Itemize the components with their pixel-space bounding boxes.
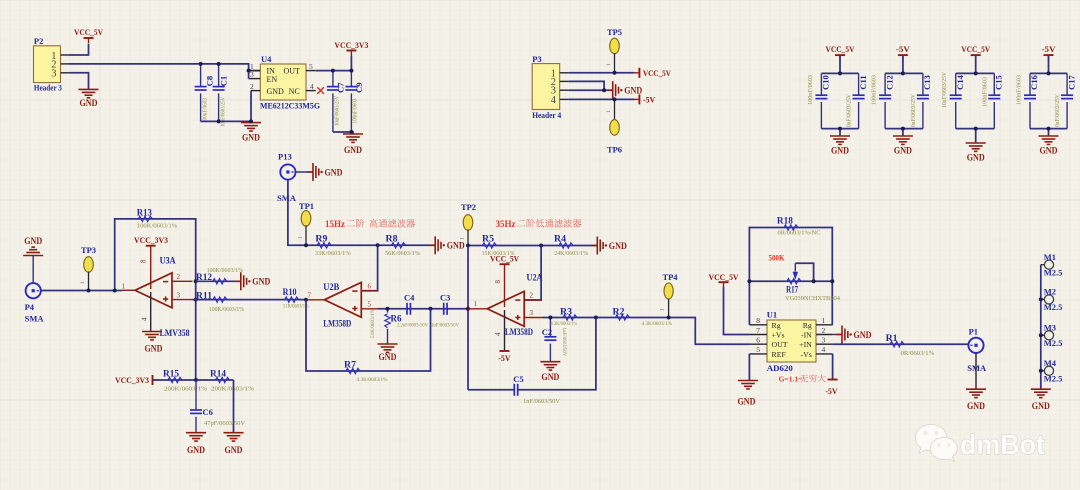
svg-text:4: 4: [551, 95, 557, 106]
svg-text:3: 3: [177, 291, 181, 299]
svg-text:M2.5: M2.5: [1044, 302, 1063, 312]
wire P2 pin3 to GND: [69, 73, 89, 89]
ground (R14): [224, 432, 244, 434]
svg-text:LMV358: LMV358: [160, 328, 190, 338]
svg-text:LM358D: LM358D: [323, 318, 351, 328]
svg-text:1: 1: [460, 237, 466, 240]
node: R9/R8 junction: [376, 243, 380, 247]
svg-text:7: 7: [756, 326, 760, 335]
op-amp U3A: [135, 273, 172, 308]
node: C4/C3 junction (R7 tap): [429, 307, 433, 311]
svg-text:R18: R18: [777, 215, 794, 225]
node: divider at pin3: [194, 298, 198, 302]
ground (U3A pin4): [142, 331, 162, 333]
svg-text:R9: R9: [315, 233, 328, 243]
ground (C7/C9): [343, 133, 363, 135]
svg-text:1uF/0603/50V: 1uF/0603/50V: [561, 328, 567, 357]
wire cap bank bottom rail: [956, 128, 995, 130]
svg-text:200K/0603/1%: 200K/0603/1%: [164, 386, 208, 393]
capacitor C7: [332, 71, 334, 87]
svg-text:VCC_3V3: VCC_3V3: [115, 376, 149, 385]
resistor R10: [287, 299, 306, 301]
wire P13 signal down to filter input: [288, 180, 435, 246]
wire P3 pin4 to -5V: [569, 98, 634, 100]
wire U1 pin5 (REF) to GND: [748, 354, 750, 381]
svg-text:Rg: Rg: [803, 321, 812, 330]
node: R13 right at pin2: [194, 279, 198, 283]
svg-text:10uF/0603/25V: 10uF/0603/25V: [1054, 94, 1061, 130]
svg-text:R7: R7: [344, 360, 357, 370]
svg-text:0R/0603/1%/NC: 0R/0603/1%/NC: [778, 230, 821, 237]
svg-text:VCC_5V: VCC_5V: [826, 45, 855, 54]
U2A pin8: [504, 264, 506, 307]
U2B pin6 stub: [361, 290, 377, 292]
resistor R11: [193, 299, 287, 301]
svg-text:EN: EN: [267, 75, 278, 84]
svg-text:33K/0603/1%: 33K/0603/1%: [315, 250, 351, 257]
svg-text:6: 6: [368, 283, 372, 291]
wire cap bank bottom rail: [821, 128, 858, 130]
svg-text:500K: 500K: [769, 253, 785, 262]
node: bank top: [1047, 71, 1051, 75]
svg-text:R8: R8: [386, 233, 399, 243]
wire P3 pin3 to GND: [569, 89, 613, 91]
svg-text:VCC_5V: VCC_5V: [709, 273, 739, 282]
svg-text:47pF/0603/50V: 47pF/0603/50V: [204, 421, 246, 427]
connector P4 SMA: [26, 283, 41, 298]
svg-text:51K/0603/1%: 51K/0603/1%: [370, 309, 376, 338]
ground (cap bank C10/C11): [830, 135, 850, 137]
svg-text:+IN: +IN: [799, 340, 812, 349]
svg-text:2: 2: [250, 82, 254, 91]
svg-text:M3: M3: [1044, 323, 1056, 333]
svg-text:GND: GND: [738, 397, 756, 407]
svg-text:-Vs: -Vs: [801, 350, 812, 359]
svg-text:6: 6: [756, 336, 760, 345]
svg-text:GND: GND: [1040, 146, 1058, 156]
svg-text:7: 7: [308, 292, 312, 300]
svg-text:C14: C14: [955, 74, 965, 89]
svg-text:GND: GND: [1032, 401, 1050, 411]
svg-text:TP1: TP1: [299, 201, 314, 211]
wire mounting hole rail: [1040, 265, 1042, 389]
node: P2.2/C8 junction: [199, 62, 203, 66]
svg-text:GND: GND: [24, 236, 42, 246]
svg-text:-5V: -5V: [825, 387, 838, 396]
U3A pin1 stub: [122, 289, 135, 291]
svg-text:LM358D: LM358D: [505, 327, 533, 337]
svg-text:C5: C5: [513, 374, 523, 384]
ground (P4 shield): [23, 255, 43, 257]
power port VCC_5V (cap bank): [971, 54, 981, 56]
wire U1 pin4 to -5V: [832, 354, 834, 380]
resistor R7 (feedback): [306, 300, 431, 371]
node: bank top: [838, 71, 842, 75]
svg-text:4: 4: [140, 317, 148, 321]
svg-text:-5V: -5V: [896, 45, 910, 54]
svg-text:4.3K/0603/1%: 4.3K/0603/1%: [550, 321, 577, 327]
node: C2 tap: [548, 316, 552, 320]
svg-text:100nF/0603: 100nF/0603: [807, 75, 814, 105]
wire U4 GND pin down: [250, 91, 252, 122]
svg-text:-5V: -5V: [643, 95, 656, 104]
potentiometer R17 rail: [749, 280, 832, 282]
resistor R3: [563, 315, 577, 320]
svg-text:GND: GND: [344, 145, 362, 155]
op-amp U2B: [324, 282, 361, 317]
wire cap bank top rail: [1048, 56, 1050, 74]
power port -5V (P3): [638, 94, 640, 104]
ground (C6): [186, 432, 206, 434]
svg-text:+Vs: +Vs: [772, 331, 785, 340]
svg-text:100nF/0603: 100nF/0603: [352, 99, 358, 124]
capacitor C13: [922, 73, 924, 95]
svg-text:4: 4: [310, 82, 314, 91]
TP2 pin: [467, 230, 469, 246]
wire R14 to GND: [233, 380, 235, 433]
svg-text:2: 2: [530, 291, 534, 299]
U2A pin1 stub: [468, 308, 487, 310]
node: C1 top junction: [217, 62, 221, 66]
svg-text:C7: C7: [336, 82, 346, 93]
svg-text:AD620: AD620: [767, 363, 793, 373]
amplifier U1 AD620: [767, 320, 816, 362]
svg-text:REF: REF: [772, 350, 787, 359]
svg-text:1: 1: [606, 63, 612, 66]
power port VCC_5V (U1 +Vs): [719, 281, 729, 283]
svg-text:R10: R10: [283, 287, 297, 297]
power port VCC_3V3 (divider R15): [152, 375, 154, 385]
svg-text:GND: GND: [325, 167, 343, 177]
capacitor C14: [955, 73, 957, 95]
ground (P2 pin3): [79, 88, 99, 90]
svg-text:C8: C8: [205, 76, 215, 86]
resistor R14: [196, 379, 234, 381]
svg-text:M2.5: M2.5: [1044, 267, 1063, 277]
wire P2 pin1 to VCC_5V: [69, 44, 89, 55]
mounting hole M4: [1041, 370, 1045, 372]
svg-text:ME6212C33M5G: ME6212C33M5G: [260, 100, 320, 110]
U2A pin4: [504, 310, 506, 351]
svg-text:3: 3: [822, 336, 826, 345]
svg-text:1: 1: [298, 236, 304, 239]
U2B pin5 stub: [361, 308, 377, 310]
svg-text:R4: R4: [554, 233, 567, 243]
svg-text:R13: R13: [137, 207, 152, 217]
capacitor C1: [218, 64, 220, 87]
U3A pin8: [150, 246, 152, 289]
svg-text:M2: M2: [1044, 287, 1056, 297]
resistor R5: [483, 243, 497, 248]
U2A pin3 stub: [524, 317, 543, 319]
test point TP3: [84, 257, 94, 273]
mounting hole M3: [1041, 334, 1045, 336]
svg-text:GND: GND: [252, 277, 270, 287]
wire input node down to U2A pin1 and on to C5 rail: [467, 246, 469, 390]
svg-text:10uF/0603/25V: 10uF/0603/25V: [941, 72, 948, 108]
svg-text:SMA: SMA: [967, 363, 987, 373]
test point TP2: [463, 215, 473, 231]
wire R5/R4 junction down to U2A pin2: [524, 246, 541, 301]
TP1 pin: [305, 225, 307, 245]
svg-text:M2.5: M2.5: [1044, 338, 1063, 348]
resistor R15: [153, 379, 197, 381]
wire cap bank top rail: [902, 56, 904, 74]
svg-text:TP2: TP2: [461, 202, 476, 212]
svg-text:VCC_5V: VCC_5V: [643, 69, 671, 78]
svg-text:SMA: SMA: [25, 314, 45, 324]
svg-text:GND: GND: [145, 344, 163, 354]
power port VCC_3V3 (U4 out): [346, 50, 356, 52]
svg-text:4: 4: [822, 345, 826, 354]
svg-text:100nF/0603: 100nF/0603: [871, 75, 878, 105]
svg-text:GND: GND: [447, 241, 465, 251]
svg-text:C15: C15: [994, 75, 1004, 90]
svg-text:1nF/0603/50V: 1nF/0603/50V: [523, 399, 561, 405]
svg-text:100nF/0603: 100nF/0603: [981, 77, 988, 107]
svg-text:R5: R5: [482, 233, 495, 243]
node: bank bottom: [901, 127, 905, 131]
svg-text:56K/0603/1%: 56K/0603/1%: [385, 250, 421, 257]
connector P1 SMA: [968, 338, 983, 353]
wire TP2 node / R5 R4 rail: [468, 245, 597, 247]
svg-text:P1: P1: [969, 326, 978, 336]
no-connect X on U4 pin4: [317, 87, 324, 94]
svg-text:C1: C1: [219, 76, 229, 86]
power port VCC_3V3 (U3A pin8): [146, 245, 156, 247]
P3 pin stubs: [560, 72, 569, 74]
U1 pin stubs: [749, 324, 767, 326]
svg-text:GND: GND: [967, 401, 985, 411]
svg-text:10uF/0603/25V: 10uF/0603/25V: [334, 95, 340, 126]
svg-text:VCC_3V3: VCC_3V3: [334, 41, 368, 50]
node: TP6 tap: [613, 97, 617, 101]
svg-text:C17: C17: [1066, 74, 1076, 89]
svg-text:0R/0603/1%: 0R/0603/1%: [901, 351, 935, 357]
power port VCC_5V (P2): [84, 37, 94, 39]
node: R6 tap: [386, 307, 390, 311]
svg-text:SMA: SMA: [277, 193, 297, 203]
svg-text:8: 8: [494, 280, 502, 284]
svg-text:M2.5: M2.5: [1044, 373, 1063, 383]
power port VCC_5V (cap bank): [835, 54, 845, 56]
wire P3 pin2 jog to pin3 net: [569, 81, 604, 90]
svg-text:GND: GND: [225, 445, 243, 455]
svg-text:M1: M1: [1044, 252, 1056, 262]
ground (U4/C8/C1): [241, 122, 261, 124]
connector P3 Header 4: [532, 64, 560, 110]
svg-text:C2: C2: [542, 327, 552, 337]
node: C5 feedback tap: [594, 316, 598, 320]
svg-text:C4: C4: [404, 292, 415, 302]
svg-text:100nF/0603: 100nF/0603: [203, 98, 209, 123]
power port -5V (U1): [828, 379, 838, 381]
svg-text:R1: R1: [886, 333, 899, 343]
resistor R18 (gain, NC): [749, 228, 832, 325]
wire U4 OUT to VCC_3V3: [316, 56, 352, 71]
svg-text:1: 1: [660, 308, 666, 311]
resistor R6 (to gnd): [387, 309, 389, 313]
svg-text:GND: GND: [541, 372, 559, 382]
svg-text:100K/0603/1%: 100K/0603/1%: [209, 306, 245, 313]
node: M3 tap: [1039, 333, 1043, 337]
svg-text:R15: R15: [163, 369, 180, 379]
svg-text:VCC_5V: VCC_5V: [490, 255, 519, 264]
svg-text:GND: GND: [967, 153, 985, 163]
U4 pin stubs + numbers: [249, 70, 261, 72]
resistor R9: [317, 243, 331, 248]
power port -5V (cap bank): [1044, 54, 1054, 56]
svg-text:8: 8: [140, 259, 148, 263]
node: R13 left / output: [113, 289, 117, 293]
node: TP3 tap: [87, 289, 91, 293]
svg-text:U2B: U2B: [323, 282, 339, 292]
ground (cap bank C16/C17): [1039, 135, 1059, 137]
svg-text:5: 5: [756, 345, 760, 354]
node: rail right: [830, 279, 834, 283]
svg-text:GND: GND: [187, 445, 205, 455]
node: TP5 tap: [613, 71, 617, 75]
svg-text:1: 1: [80, 281, 86, 284]
resistor R12: [196, 280, 241, 282]
svg-text:1: 1: [122, 282, 126, 290]
wire P3 pin1 to VCC_5V: [569, 72, 634, 74]
svg-text:TP6: TP6: [607, 145, 622, 155]
node: TP2/input: [466, 244, 470, 248]
svg-text:G=1.1~: G=1.1~: [779, 375, 802, 384]
node: divider mid: [194, 378, 198, 382]
resistor R8: [392, 243, 406, 248]
ground (cap bank C14/C15): [966, 142, 986, 144]
svg-text:4.3K/0603/1%: 4.3K/0603/1%: [357, 377, 388, 383]
svg-text:TP3: TP3: [81, 245, 96, 255]
wire P1 shield to GND: [975, 353, 977, 389]
svg-text:2: 2: [177, 273, 181, 281]
wire U2B pin5 to C4/C3 chain: [378, 308, 468, 310]
svg-text:10uF/0603/25V: 10uF/0603/25V: [846, 94, 853, 130]
wire P4 shield: [32, 256, 34, 284]
svg-text:R11: R11: [196, 291, 213, 301]
TP6 pin: [614, 99, 616, 120]
wire U1 pin3 (+IN) to R1/P1: [833, 343, 969, 345]
ground (U1 REF): [738, 380, 758, 382]
svg-text:GND: GND: [894, 146, 912, 156]
resistor R2: [616, 315, 630, 320]
test point TP6: [610, 120, 620, 136]
TP5 pin: [614, 53, 616, 73]
svg-text:Header 4: Header 4: [532, 110, 562, 120]
node: M2 tap: [1039, 297, 1043, 301]
TP4 pin: [668, 299, 670, 318]
capacitor C8: [200, 64, 202, 87]
node: C9 top: [349, 69, 353, 73]
ground (P13 shield): [307, 171, 313, 173]
svg-text:C11: C11: [858, 75, 868, 89]
resistor R4: [559, 243, 573, 248]
ground (cap bank C12/C13): [893, 135, 913, 137]
node: TP4 tap: [667, 316, 671, 320]
capacitor C16: [1029, 73, 1031, 95]
wire cap bank bottom rail: [1030, 128, 1067, 130]
capacitor C3: [443, 303, 445, 315]
svg-text:100K/0603/1%: 100K/0603/1%: [207, 267, 244, 274]
mounting hole M2: [1041, 298, 1045, 300]
svg-text:5: 5: [368, 301, 372, 309]
svg-text:C16: C16: [1029, 75, 1039, 90]
svg-text:GND: GND: [624, 86, 642, 96]
wire C8/C1 bottoms to GND rail: [201, 120, 251, 122]
capacitor C12: [884, 73, 886, 95]
svg-text:2: 2: [822, 326, 826, 335]
U2A pin2 stub: [524, 299, 541, 301]
svg-text:C13: C13: [922, 75, 932, 90]
svg-text:OUT: OUT: [283, 67, 300, 76]
watermark dmBot logo: [915, 424, 1045, 461]
svg-text:TP5: TP5: [607, 27, 622, 37]
svg-text:GND: GND: [242, 133, 260, 143]
wire R9/R8 junction down to U2B pin6: [361, 245, 377, 290]
node: gnd rail: [249, 119, 253, 123]
wire P4 to U3A output node: [41, 290, 122, 292]
node: C1 bottom: [217, 119, 221, 123]
U3A pin4: [150, 292, 152, 331]
svg-text:3: 3: [250, 70, 254, 79]
test point TP4: [664, 283, 673, 299]
svg-text:TP4: TP4: [662, 272, 678, 282]
svg-text:R3: R3: [560, 306, 573, 316]
svg-text:VCC_5V: VCC_5V: [961, 45, 990, 54]
svg-text:GND: GND: [267, 87, 285, 96]
svg-text:5: 5: [309, 62, 313, 71]
wire VCC to U1 pin7: [724, 287, 750, 335]
capacitor C2: [549, 318, 551, 337]
svg-text:M4: M4: [1044, 358, 1057, 368]
svg-text:-IN: -IN: [801, 331, 812, 340]
capacitor C9: [350, 71, 352, 87]
node: bank bottom: [974, 127, 978, 131]
node: pin2/pin3 join: [602, 88, 606, 92]
pin stubs P2: [61, 54, 70, 56]
node: R10 right / U2B out: [304, 298, 308, 302]
svg-text:OUT: OUT: [772, 340, 788, 349]
svg-text:GND: GND: [831, 146, 849, 156]
svg-text:U1: U1: [767, 310, 777, 320]
svg-text:GND: GND: [379, 352, 397, 362]
wire cap bank bottom rail: [885, 128, 923, 130]
svg-text:P13: P13: [278, 152, 292, 162]
svg-text:1: 1: [474, 300, 478, 308]
U3A pin3 stub: [172, 299, 193, 301]
svg-text:100K/0603/1%: 100K/0603/1%: [137, 223, 178, 230]
svg-text:3: 3: [530, 309, 534, 317]
TP3 pin: [88, 272, 90, 291]
wire cap bank top rail: [839, 56, 841, 74]
svg-text:GND: GND: [854, 330, 872, 340]
svg-text:8: 8: [756, 316, 760, 325]
node: bank bottom: [838, 127, 842, 131]
svg-text:24K/0603/1%: 24K/0603/1%: [554, 250, 589, 257]
svg-text:-5V: -5V: [1042, 45, 1056, 54]
U2B pin7 stub: [306, 299, 324, 301]
svg-text:R2: R2: [613, 306, 626, 316]
svg-text:U2A: U2A: [527, 272, 543, 282]
node: bank top: [974, 71, 978, 75]
svg-text:4: 4: [494, 332, 502, 336]
U3A pin2 stub: [172, 280, 193, 282]
capacitor C17: [1066, 73, 1068, 95]
svg-text:C3: C3: [440, 292, 450, 302]
node: C7 top: [331, 69, 335, 73]
